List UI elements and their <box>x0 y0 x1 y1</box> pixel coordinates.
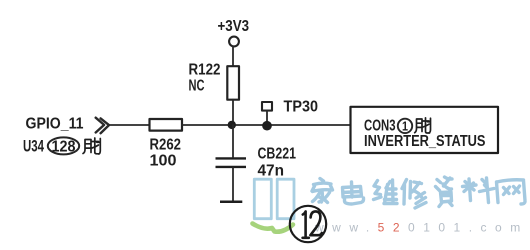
watermark char 资 <box>436 177 453 207</box>
svg-text:+3V3: +3V3 <box>218 18 250 35</box>
resistor R122 <box>227 66 239 100</box>
power terminal circle <box>229 37 239 47</box>
脚 glyph (left) <box>83 138 100 154</box>
wire R122 to node <box>232 100 234 125</box>
watermark char 料 <box>463 178 495 203</box>
junction node A <box>228 121 236 129</box>
pin 1 circle <box>398 119 412 133</box>
svg-text:128: 128 <box>52 138 76 155</box>
circled 12 page marker <box>290 206 326 242</box>
svg-text:U34: U34 <box>23 138 45 156</box>
svg-text:R262: R262 <box>150 136 182 153</box>
watermark char 电 <box>343 182 364 204</box>
wire chevron to R262 <box>109 124 149 126</box>
ground bar <box>220 200 242 203</box>
resistor R262 <box>150 119 183 131</box>
watermark char 修 <box>402 180 426 209</box>
svg-text:R122: R122 <box>189 62 221 79</box>
watermark char 家 <box>312 179 333 203</box>
svg-text:TP30: TP30 <box>284 99 319 116</box>
test point TP30 <box>262 102 272 111</box>
svg-text:CB221: CB221 <box>258 145 297 162</box>
wire capacitor to ground <box>232 168 234 201</box>
connector box CON3 <box>351 107 499 153</box>
svg-text:NC: NC <box>189 78 205 95</box>
wire node to capacitor <box>232 125 234 157</box>
wire circle to R122 <box>232 47 234 67</box>
watermark char 维 <box>374 180 398 204</box>
capacitor CB221 <box>216 158 247 167</box>
svg-text:47n: 47n <box>258 162 285 179</box>
svg-text:www.520101.com: www.520101.com <box>314 221 529 235</box>
svg-text:1: 1 <box>402 119 408 134</box>
脚 glyph (box) <box>415 118 431 133</box>
wire R262 to CON3 box <box>182 124 351 126</box>
svg-text:100: 100 <box>150 152 177 169</box>
pin number 128 ellipse <box>48 137 79 154</box>
junction node B <box>262 121 272 131</box>
watermark book icon <box>253 179 295 232</box>
svg-text:GPIO_11: GPIO_11 <box>26 116 84 133</box>
svg-text:INVERTER_STATUS: INVERTER_STATUS <box>364 133 486 150</box>
chevron input arrow <box>96 118 109 134</box>
watermark char 网 <box>497 180 526 204</box>
